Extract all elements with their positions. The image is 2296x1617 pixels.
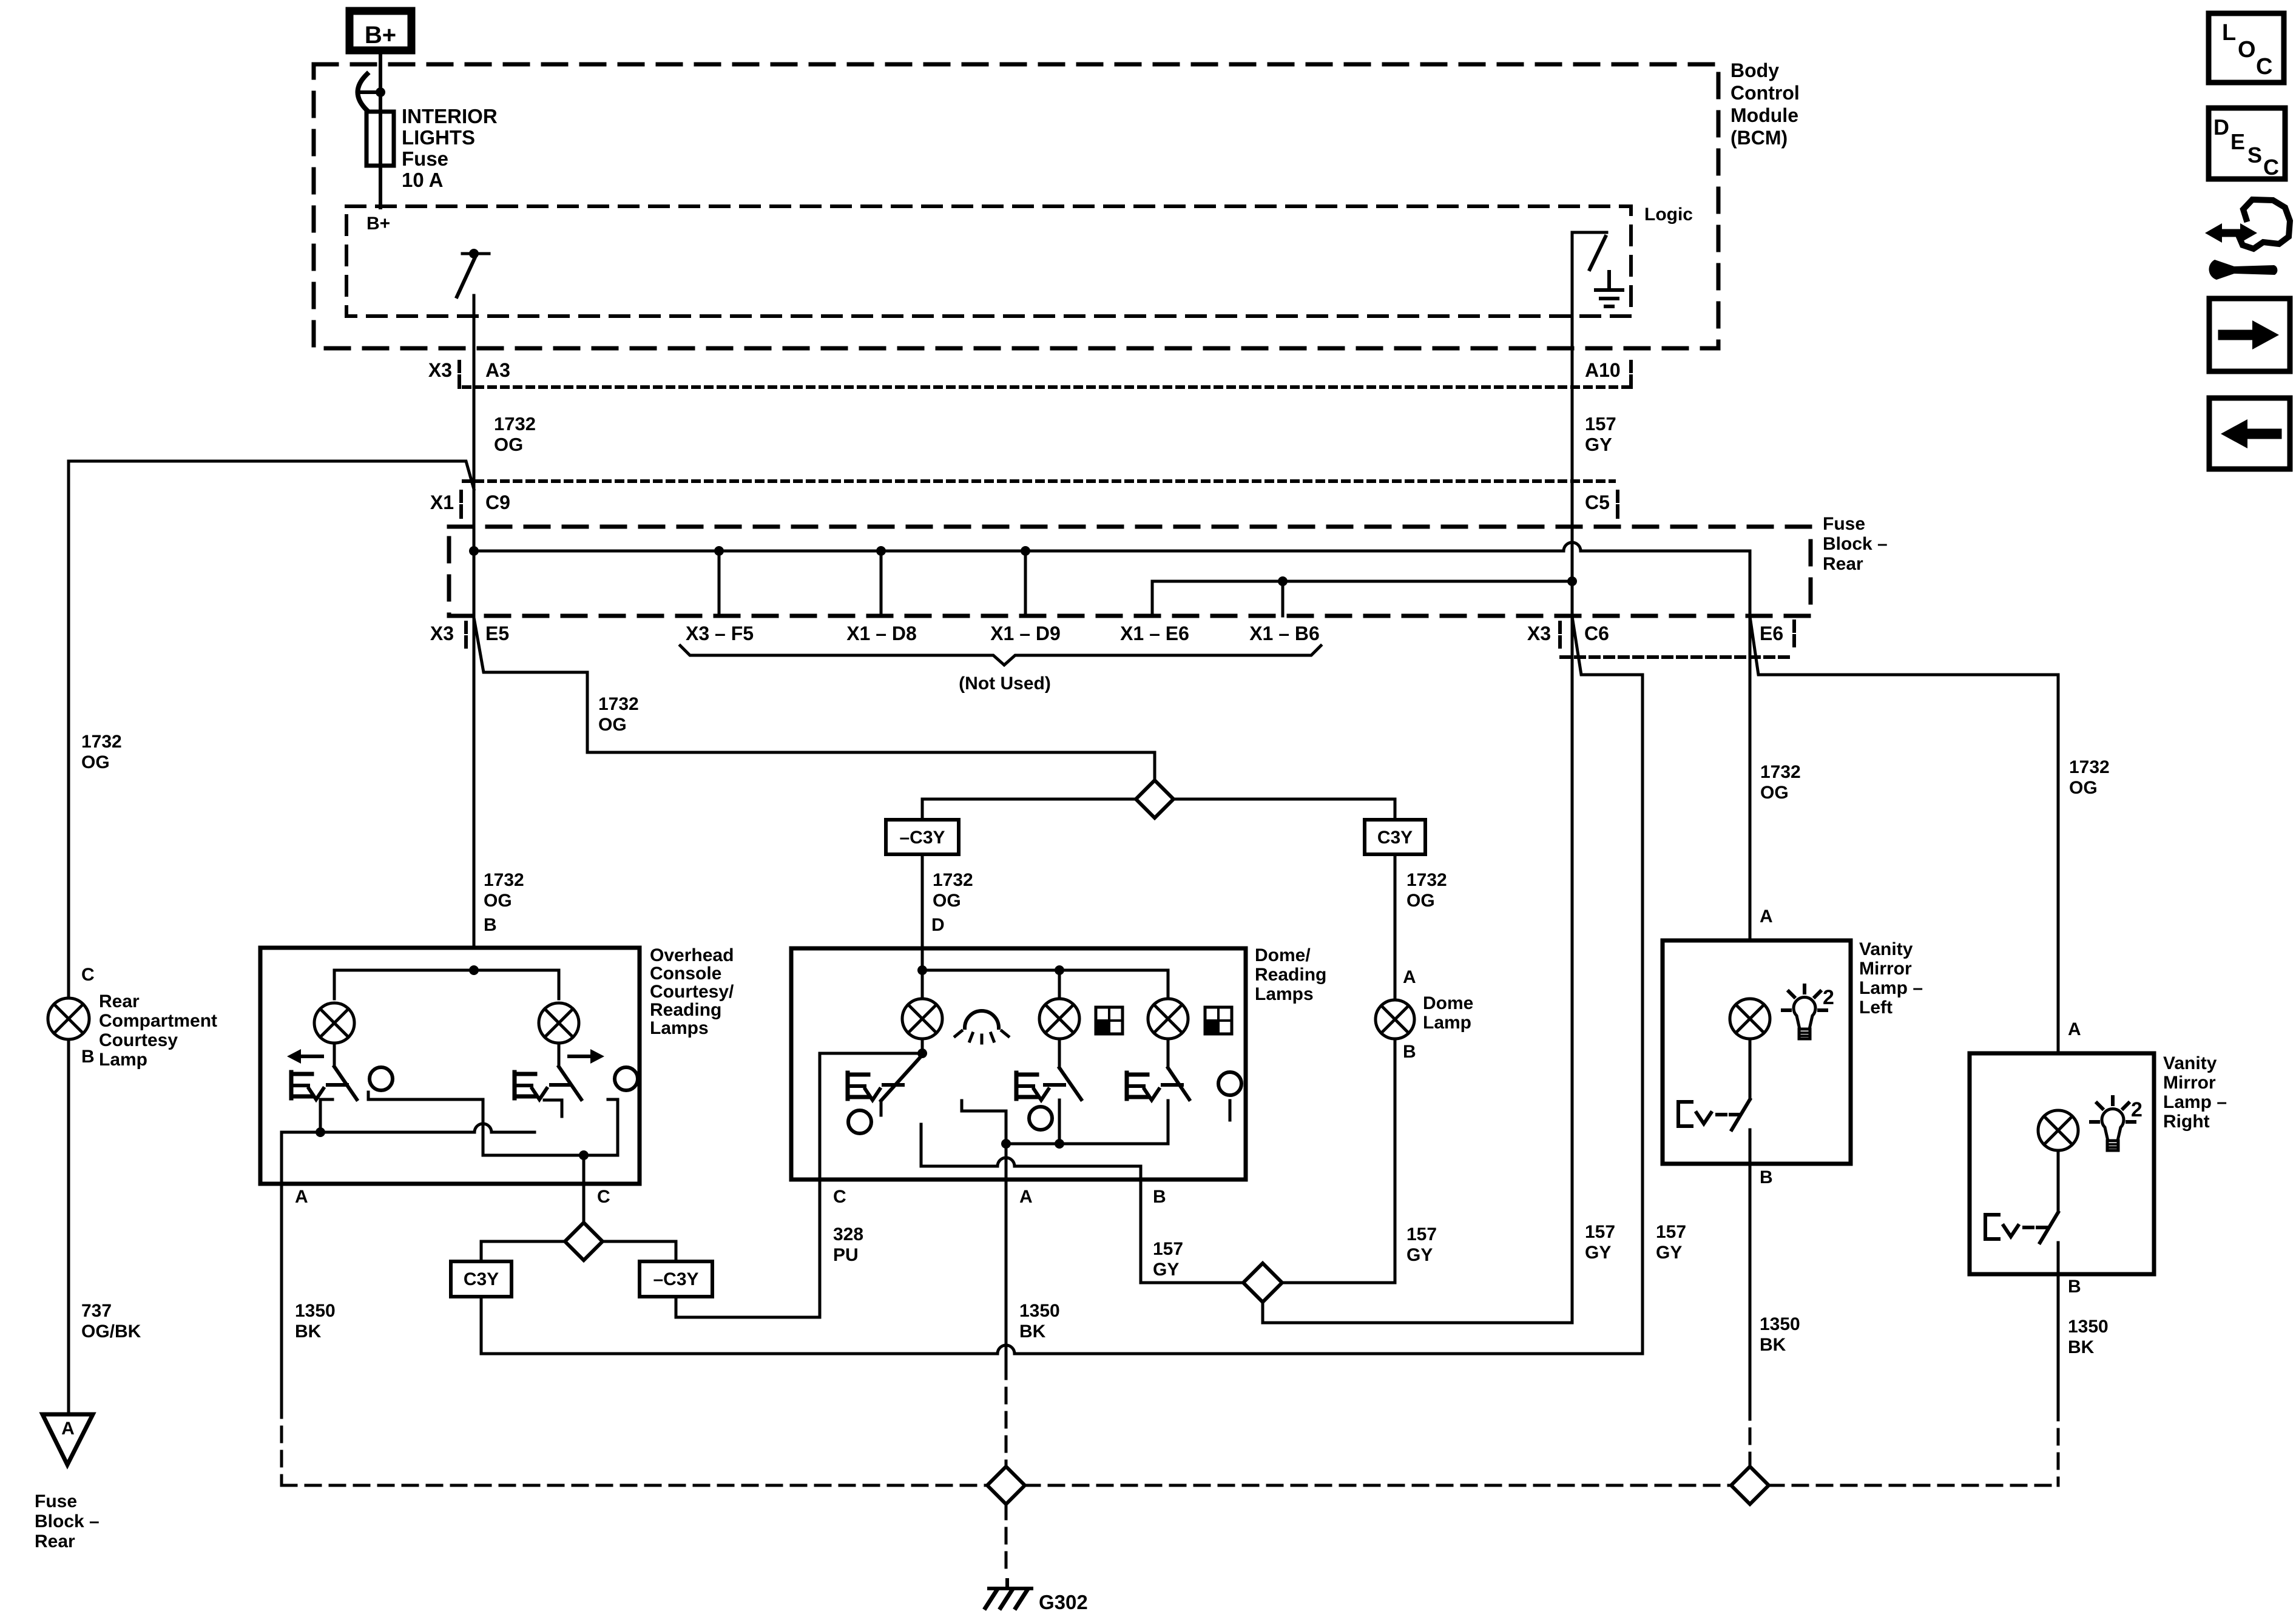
- svg-text:Compartment: Compartment: [99, 1011, 217, 1031]
- svg-text:C3Y: C3Y: [1377, 828, 1413, 848]
- svg-text:LIGHTS: LIGHTS: [402, 126, 475, 149]
- svg-text:Lamps: Lamps: [1255, 984, 1314, 1004]
- svg-text:Vanity: Vanity: [2163, 1053, 2217, 1073]
- svg-text:(Not Used): (Not Used): [959, 673, 1051, 694]
- svg-text:157: 157: [1656, 1222, 1686, 1242]
- svg-text:A10: A10: [1585, 359, 1621, 381]
- svg-text:Fuse: Fuse: [1823, 514, 1865, 534]
- svg-text:OG: OG: [1760, 783, 1789, 803]
- svg-text:GY: GY: [1585, 1243, 1611, 1263]
- svg-text:BK: BK: [1760, 1335, 1786, 1355]
- svg-text:Dome/: Dome/: [1255, 945, 1311, 965]
- svg-text:157: 157: [1153, 1239, 1183, 1259]
- svg-text:1732: 1732: [1406, 870, 1447, 890]
- svg-text:OG: OG: [484, 891, 512, 911]
- svg-text:Console: Console: [650, 964, 721, 984]
- svg-text:OG: OG: [494, 434, 523, 455]
- svg-text:X3: X3: [430, 623, 454, 644]
- svg-text:C6: C6: [1584, 623, 1609, 644]
- svg-text:B: B: [1403, 1042, 1416, 1062]
- svg-text:Courtesy/: Courtesy/: [650, 982, 734, 1002]
- svg-text:X1 – D8: X1 – D8: [846, 623, 917, 644]
- svg-text:157: 157: [1585, 1222, 1615, 1242]
- svg-text:Lamp –: Lamp –: [1859, 978, 1923, 998]
- svg-text:X3: X3: [1527, 623, 1551, 644]
- svg-text:1732: 1732: [484, 870, 524, 890]
- svg-text:Block –: Block –: [35, 1511, 100, 1531]
- svg-text:X1 – D9: X1 – D9: [990, 623, 1061, 644]
- svg-text:737: 737: [81, 1301, 112, 1321]
- svg-text:A: A: [61, 1419, 75, 1439]
- svg-text:Lamps: Lamps: [650, 1018, 709, 1038]
- svg-text:2: 2: [1823, 986, 1834, 1009]
- svg-text:B+: B+: [365, 22, 396, 49]
- svg-text:BK: BK: [295, 1322, 322, 1342]
- svg-text:Logic: Logic: [1644, 204, 1693, 224]
- svg-text:B: B: [1760, 1167, 1773, 1187]
- svg-text:Lamp: Lamp: [99, 1050, 147, 1070]
- svg-text:1350: 1350: [1760, 1314, 1800, 1334]
- svg-text:C5: C5: [1585, 491, 1610, 513]
- svg-text:C9: C9: [485, 491, 510, 513]
- svg-text:INTERIOR: INTERIOR: [402, 105, 498, 127]
- svg-text:A: A: [295, 1187, 308, 1207]
- svg-text:A: A: [1019, 1187, 1033, 1207]
- svg-text:Block –: Block –: [1823, 534, 1888, 554]
- svg-text:E: E: [2230, 129, 2245, 154]
- svg-text:Rear: Rear: [1823, 554, 1863, 574]
- svg-text:L: L: [2222, 20, 2236, 46]
- svg-text:1732: 1732: [598, 694, 639, 714]
- svg-text:B: B: [484, 915, 497, 935]
- svg-text:B: B: [2068, 1277, 2081, 1297]
- svg-text:C: C: [597, 1187, 610, 1207]
- svg-text:E6: E6: [1760, 623, 1783, 644]
- svg-text:D: D: [931, 915, 945, 935]
- svg-text:X1: X1: [430, 491, 454, 513]
- svg-text:Reading: Reading: [650, 1000, 721, 1020]
- svg-text:1732: 1732: [81, 732, 122, 752]
- svg-text:Fuse: Fuse: [402, 147, 448, 170]
- svg-text:E5: E5: [485, 623, 509, 644]
- svg-text:O: O: [2238, 37, 2256, 62]
- svg-text:Control: Control: [1730, 82, 1800, 104]
- svg-text:1732: 1732: [2069, 757, 2110, 777]
- svg-text:Overhead: Overhead: [650, 945, 734, 965]
- svg-text:S: S: [2247, 143, 2262, 167]
- svg-text:A: A: [1403, 967, 1416, 987]
- svg-text:10 A: 10 A: [402, 169, 443, 191]
- svg-text:Fuse: Fuse: [35, 1491, 77, 1511]
- svg-text:BK: BK: [1019, 1322, 1046, 1342]
- svg-text:Vanity: Vanity: [1859, 939, 1913, 959]
- svg-text:C: C: [2256, 54, 2272, 79]
- svg-text:D: D: [2213, 115, 2229, 140]
- svg-text:1350: 1350: [1019, 1301, 1060, 1321]
- svg-text:Lamp –: Lamp –: [2163, 1092, 2227, 1112]
- svg-text:A: A: [2068, 1019, 2081, 1039]
- svg-text:1732: 1732: [494, 413, 536, 434]
- svg-text:OG: OG: [933, 891, 961, 911]
- svg-text:OG: OG: [2069, 778, 2098, 798]
- svg-text:Module: Module: [1730, 104, 1798, 126]
- svg-text:B: B: [81, 1047, 95, 1067]
- svg-text:328: 328: [833, 1224, 863, 1244]
- svg-text:GY: GY: [1656, 1243, 1682, 1263]
- svg-text:1350: 1350: [2068, 1317, 2109, 1337]
- svg-text:X1 – E6: X1 – E6: [1120, 623, 1189, 644]
- svg-text:Left: Left: [1859, 998, 1893, 1018]
- svg-text:157: 157: [1585, 413, 1616, 434]
- svg-text:Lamp: Lamp: [1423, 1013, 1471, 1033]
- svg-text:Rear: Rear: [99, 991, 140, 1011]
- svg-text:–C3Y: –C3Y: [899, 828, 945, 848]
- svg-text:C3Y: C3Y: [464, 1269, 499, 1289]
- svg-text:GY: GY: [1153, 1260, 1179, 1280]
- svg-text:Mirror: Mirror: [1859, 959, 1912, 979]
- svg-text:A: A: [1760, 906, 1773, 927]
- svg-text:Dome: Dome: [1423, 993, 1473, 1013]
- svg-text:B: B: [1153, 1187, 1166, 1207]
- svg-text:Courtesy: Courtesy: [99, 1030, 178, 1050]
- svg-text:1350: 1350: [295, 1301, 336, 1321]
- svg-text:Reading: Reading: [1255, 965, 1326, 985]
- svg-text:Body: Body: [1730, 59, 1779, 81]
- svg-text:OG: OG: [1406, 891, 1435, 911]
- svg-text:Right: Right: [2163, 1112, 2210, 1132]
- svg-text:GY: GY: [1406, 1245, 1433, 1265]
- svg-text:C: C: [2263, 155, 2279, 180]
- svg-text:B+: B+: [366, 214, 390, 234]
- svg-text:157: 157: [1406, 1224, 1437, 1244]
- svg-text:OG: OG: [598, 715, 627, 735]
- svg-text:2: 2: [2131, 1098, 2142, 1121]
- svg-text:1732: 1732: [1760, 762, 1801, 782]
- svg-text:C: C: [81, 965, 95, 985]
- svg-text:(BCM): (BCM): [1730, 127, 1788, 149]
- svg-text:A3: A3: [485, 359, 510, 381]
- svg-text:GY: GY: [1585, 434, 1612, 455]
- svg-text:G302: G302: [1039, 1591, 1088, 1613]
- svg-text:X3 – F5: X3 – F5: [686, 623, 754, 644]
- svg-text:1732: 1732: [933, 870, 973, 890]
- svg-text:OG/BK: OG/BK: [81, 1322, 141, 1342]
- svg-text:BK: BK: [2068, 1337, 2095, 1357]
- svg-text:PU: PU: [833, 1245, 859, 1265]
- svg-text:OG: OG: [81, 752, 110, 772]
- svg-text:X3: X3: [428, 359, 452, 381]
- svg-text:X1 – B6: X1 – B6: [1249, 623, 1320, 644]
- svg-text:–C3Y: –C3Y: [653, 1269, 698, 1289]
- svg-text:Mirror: Mirror: [2163, 1073, 2216, 1093]
- svg-text:C: C: [833, 1187, 846, 1207]
- svg-text:Rear: Rear: [35, 1531, 75, 1551]
